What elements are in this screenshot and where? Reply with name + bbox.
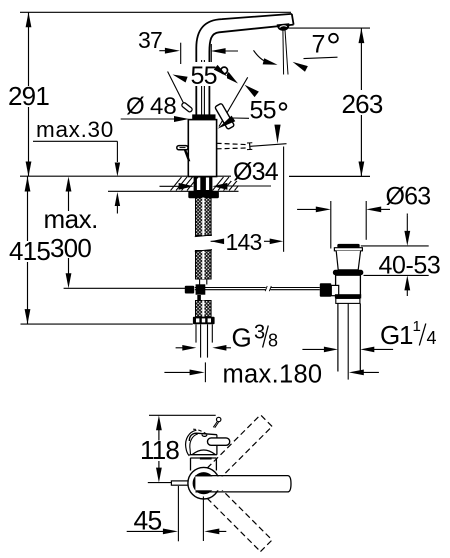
svg-text:7: 7 bbox=[312, 31, 325, 59]
svg-text:max.: max. bbox=[44, 204, 98, 234]
svg-text:Ø34: Ø34 bbox=[233, 158, 279, 186]
svg-text:118: 118 bbox=[140, 435, 179, 465]
svg-text:4: 4 bbox=[427, 328, 437, 348]
svg-text:Ø63: Ø63 bbox=[386, 183, 431, 211]
svg-text:1: 1 bbox=[413, 318, 421, 335]
svg-text:48: 48 bbox=[150, 93, 177, 120]
svg-text:G: G bbox=[232, 322, 252, 352]
svg-text:415: 415 bbox=[9, 236, 50, 266]
svg-text:143: 143 bbox=[226, 229, 262, 255]
svg-text:55: 55 bbox=[250, 97, 276, 125]
svg-text:55: 55 bbox=[191, 62, 217, 90]
svg-text:max.30: max.30 bbox=[36, 117, 114, 142]
svg-text:291: 291 bbox=[8, 81, 49, 111]
svg-text:45: 45 bbox=[134, 506, 162, 536]
svg-text:300: 300 bbox=[50, 233, 91, 263]
svg-text:263: 263 bbox=[342, 89, 383, 119]
svg-text:8: 8 bbox=[268, 331, 278, 351]
svg-text:G1: G1 bbox=[380, 320, 413, 350]
svg-text:max.180: max.180 bbox=[223, 361, 323, 389]
svg-text:3: 3 bbox=[254, 322, 265, 344]
svg-text:37: 37 bbox=[138, 27, 162, 53]
svg-text:Ø: Ø bbox=[126, 93, 145, 120]
